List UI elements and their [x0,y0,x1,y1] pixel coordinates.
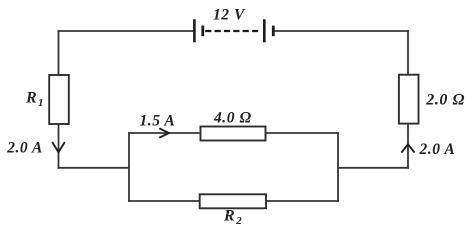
wire bottom branch right part [266,200,339,202]
resistor R2 box (bottom branch horizontal) [200,194,266,208]
wire parallel-block right edge [337,132,339,202]
svg-text:4.0 Ω: 4.0 Ω [213,110,252,127]
wire top-right segment [275,30,409,32]
svg-text:R2: R2 [223,208,242,227]
battery BT1 right long plate [263,19,266,42]
resistor 4.0 ohm box (top branch horizontal) [201,127,266,141]
svg-text:R1: R1 [25,90,44,109]
arrow current up (right branch) [401,144,414,152]
wire top branch left part [128,132,200,134]
resistor R1 box (left vertical) [49,75,69,124]
wire bottom branch left part [128,200,200,202]
svg-text:2.0 A: 2.0 A [6,140,43,157]
wire top-left segment [58,30,194,32]
battery BT1 right short plate [272,26,275,37]
arrow current down (left branch) [52,142,65,152]
wire left vertical upper (battery to R1) [58,30,60,75]
arrow current right (top branch 1.5 A) [159,128,169,137]
svg-text:2.0 A: 2.0 A [419,141,456,158]
wire left vertical lower (R1 to bottom corner) [58,124,60,169]
wire bottom-right horizontal stub [338,167,409,169]
wire top branch right part [266,132,339,134]
resistor 2.0 ohm box (right vertical) [399,75,419,124]
wire right vertical lower (2.0 ohm to bottom corner) [407,124,409,169]
battery dashed link (omitted cells) [205,30,259,32]
wire right vertical upper (battery to 2.0 ohm) [407,30,409,75]
battery BT1 left short plate [201,26,204,37]
wire bottom-left horizontal [58,167,129,169]
battery BT1 left long plate [193,19,196,42]
svg-text:1.5 A: 1.5 A [140,113,176,130]
wire parallel-block left edge [128,132,130,202]
svg-text:12 V: 12 V [213,7,246,24]
svg-text:2.0 Ω: 2.0 Ω [425,91,465,108]
